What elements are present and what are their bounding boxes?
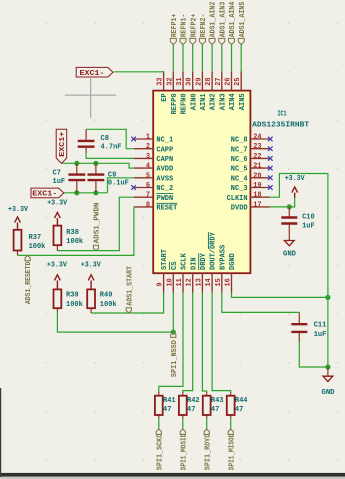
- svg-text:BYPASS: BYPASS: [219, 245, 227, 270]
- junction C7 top: [74, 161, 79, 166]
- svg-text:16: 16: [225, 278, 233, 286]
- net label SPI1_MOSID: [180, 429, 188, 470]
- svg-text:PWDN: PWDN: [156, 195, 173, 203]
- svg-text:REFN1-: REFN1-: [181, 14, 189, 38]
- svg-text:EXC1-: EXC1-: [80, 70, 105, 78]
- svg-text:22: 22: [253, 153, 261, 161]
- svg-text:SPI1_SCKD: SPI1_SCKD: [156, 434, 164, 471]
- svg-text:1uF: 1uF: [302, 223, 315, 231]
- svg-text:9: 9: [157, 282, 165, 286]
- svg-text:REFN0: REFN0: [181, 93, 189, 114]
- resistor R40: [87, 289, 116, 313]
- pin 5 AVSS: [134, 172, 173, 183]
- svg-text:1uF: 1uF: [53, 178, 66, 186]
- capacitor C7: [53, 163, 86, 193]
- power +3.3V R37: [8, 206, 29, 230]
- wire: [172, 45, 174, 72]
- svg-text:25: 25: [234, 78, 242, 86]
- wire: [240, 45, 242, 72]
- wire R39 to pin 10 CS net: [57, 312, 173, 333]
- capacitor C9: [88, 163, 129, 193]
- svg-text:SPI1_MOSID: SPI1_MOSID: [180, 434, 188, 471]
- svg-text:C7: C7: [53, 169, 61, 177]
- svg-text:100k: 100k: [29, 243, 46, 251]
- svg-text:SPI1_MISOD: SPI1_MISOD: [228, 434, 236, 471]
- svg-text:ADS1_AIN5: ADS1_AIN5: [239, 2, 247, 38]
- wire pin 8 RESET to R37: [18, 207, 134, 256]
- svg-text:0.1uF: 0.1uF: [108, 180, 129, 188]
- pin 20 NC_4: [231, 172, 273, 183]
- wire: [211, 45, 213, 72]
- ground rail: [322, 376, 335, 397]
- svg-text:DRDY: DRDY: [200, 252, 208, 270]
- svg-text:NC_1: NC_1: [156, 137, 173, 145]
- pin 12 DIN: [186, 257, 199, 292]
- svg-text:EXC1+: EXC1+: [59, 132, 67, 157]
- svg-text:12: 12: [186, 278, 194, 286]
- svg-text:30: 30: [186, 78, 194, 86]
- wire pin 10 CS down to junction: [172, 293, 174, 333]
- svg-text:AIN2: AIN2: [210, 93, 218, 110]
- wire: [230, 419, 232, 429]
- svg-text:CLKIN: CLKIN: [227, 195, 248, 203]
- pin 14 DOUT/DRDY: [205, 231, 218, 292]
- power +3.3V R39: [47, 261, 68, 289]
- svg-text:CAPP: CAPP: [156, 146, 173, 154]
- svg-text:C10: C10: [302, 213, 315, 221]
- wire: [158, 419, 160, 429]
- svg-text:11: 11: [176, 278, 184, 286]
- pin 21 NC_5: [231, 163, 273, 174]
- wire C8 bottom to pin 3 CAPN: [86, 153, 134, 158]
- net label REFN2-: [199, 14, 208, 45]
- capacitor C11: [291, 312, 326, 341]
- svg-text:47: 47: [187, 406, 195, 414]
- junction C9 bottom: [93, 190, 98, 195]
- svg-text:EXC1-: EXC1-: [32, 191, 57, 199]
- power +3.3V DVDD: [285, 175, 306, 198]
- pin 27 AIN3: [215, 71, 228, 110]
- svg-text:1uF: 1uF: [314, 331, 327, 339]
- net label REFP1+: [170, 14, 179, 45]
- capacitor C10: [281, 207, 314, 241]
- wire EXC1- to pin 33 EP: [114, 71, 164, 73]
- power +3.3V R38: [47, 200, 68, 226]
- svg-text:CS: CS: [171, 262, 179, 270]
- pin 7 PWDN: [134, 192, 173, 203]
- svg-text:C11: C11: [314, 321, 327, 329]
- svg-text:10: 10: [166, 278, 174, 286]
- svg-text:14: 14: [205, 278, 213, 286]
- svg-text:CAPN: CAPN: [156, 156, 173, 164]
- net label SPI1_RDYD: [204, 429, 212, 470]
- ground lead: [327, 367, 329, 376]
- pin 33 EP: [157, 71, 170, 101]
- global label EXC1+: [56, 129, 67, 163]
- resistor R43: [203, 392, 224, 419]
- pin 22 NC_6: [231, 153, 273, 164]
- wire pin 12 DIN to R42: [183, 293, 193, 393]
- pin 19 NC_3: [231, 182, 273, 193]
- svg-text:33: 33: [157, 78, 165, 86]
- svg-text:R38: R38: [66, 229, 79, 237]
- svg-text:NC_8: NC_8: [231, 137, 248, 145]
- svg-text:IC1: IC1: [278, 110, 287, 118]
- svg-text:4: 4: [146, 163, 150, 171]
- wire EXC1- / C7 C9 bottoms: [64, 192, 108, 194]
- junction DGND rail: [325, 295, 330, 300]
- svg-text:NC_5: NC_5: [231, 166, 248, 174]
- wire: [182, 419, 184, 429]
- IC U1 ADS1235IRHBT body: [153, 91, 250, 274]
- resistor R44: [227, 392, 248, 419]
- svg-text:7: 7: [146, 192, 150, 200]
- svg-text:NC_3: NC_3: [231, 185, 248, 193]
- svg-text:5: 5: [146, 172, 150, 180]
- svg-text:19: 19: [253, 182, 261, 190]
- svg-text:100k: 100k: [66, 238, 83, 246]
- ground C10: [283, 241, 296, 259]
- svg-text:START: START: [161, 249, 169, 270]
- pin 1 NC_1: [131, 134, 173, 145]
- svg-text:8: 8: [146, 201, 150, 209]
- svg-text:100k: 100k: [100, 301, 117, 309]
- resistor R39: [54, 289, 83, 311]
- svg-text:+3.3V: +3.3V: [285, 175, 306, 183]
- svg-text:ADS1235IRHBT: ADS1235IRHBT: [252, 121, 309, 129]
- svg-text:+3.3V: +3.3V: [8, 206, 29, 214]
- svg-text:GND: GND: [322, 389, 335, 397]
- net label ADS1_AIN3: [219, 2, 228, 45]
- svg-text:AVSS: AVSS: [156, 175, 173, 183]
- svg-text:EP: EP: [161, 93, 169, 101]
- svg-text:6: 6: [146, 182, 150, 190]
- svg-text:DOUT/DRDY: DOUT/DRDY: [210, 231, 218, 270]
- svg-text:47: 47: [211, 406, 219, 414]
- svg-text:NC_2: NC_2: [156, 185, 173, 193]
- svg-text:C8: C8: [101, 135, 109, 143]
- svg-text:3: 3: [146, 153, 150, 161]
- wire pin 15 BYPASS to C11: [222, 293, 299, 313]
- wire C8 top to pin 2 CAPP: [86, 129, 134, 148]
- pin 25 AIN5: [234, 71, 247, 110]
- svg-text:2: 2: [146, 143, 150, 151]
- svg-text:GND: GND: [283, 251, 296, 259]
- svg-text:AIN4: AIN4: [229, 93, 237, 110]
- svg-text:NC_4: NC_4: [231, 175, 248, 183]
- pin 4 AVDD: [134, 163, 173, 174]
- svg-text:DVDD: DVDD: [231, 205, 248, 213]
- svg-text:R44: R44: [235, 397, 248, 405]
- svg-text:REFP1+: REFP1+: [171, 14, 179, 38]
- svg-text:+3.3V: +3.3V: [47, 261, 68, 269]
- net label ADS1_START: [126, 266, 134, 313]
- wire pin 7 PWDN to R38: [57, 197, 133, 250]
- pin 32 REFP0: [166, 71, 179, 114]
- svg-text:ADS1_RESETD: ADS1_RESETD: [25, 262, 33, 305]
- wire pin 16 DGND to ground rail: [232, 293, 328, 298]
- wire: [206, 419, 208, 429]
- svg-text:ADS1_AIN4: ADS1_AIN4: [229, 2, 237, 38]
- wire: [201, 45, 203, 72]
- svg-text:+3.3V: +3.3V: [47, 200, 68, 208]
- svg-text:ADS1_AIN2: ADS1_AIN2: [210, 2, 218, 38]
- pin 28 AIN2: [205, 71, 218, 110]
- wire C11 bottom to ground rail: [299, 341, 328, 367]
- svg-text:47: 47: [163, 406, 171, 414]
- svg-text:+3.3V: +3.3V: [81, 261, 102, 269]
- pin 26 AIN4: [225, 71, 238, 110]
- pin 30 AIN0: [186, 71, 199, 110]
- svg-text:24: 24: [253, 134, 261, 142]
- svg-text:29: 29: [195, 78, 203, 86]
- pin 2 CAPP: [134, 143, 173, 154]
- svg-text:REFN2-: REFN2-: [200, 14, 208, 38]
- svg-text:C9: C9: [108, 172, 116, 180]
- svg-text:REFP2+: REFP2+: [190, 14, 198, 38]
- pin 13 DRDY: [195, 252, 208, 292]
- svg-text:R39: R39: [66, 292, 79, 300]
- svg-text:32: 32: [166, 78, 174, 86]
- wire pin 5 AVSS down to EXC1- net: [108, 178, 134, 193]
- wire pin 17 DVDD to +3.3V and C10: [270, 198, 295, 207]
- svg-text:NC_7: NC_7: [231, 146, 248, 154]
- pin 16 DGND: [225, 253, 238, 292]
- capacitor C8: [78, 129, 122, 153]
- svg-text:R37: R37: [29, 234, 42, 242]
- svg-text:20: 20: [253, 172, 261, 180]
- net label ADS1_PWDN: [93, 202, 101, 250]
- svg-text:13: 13: [195, 278, 203, 286]
- svg-text:R41: R41: [163, 397, 176, 405]
- svg-text:DGND: DGND: [229, 253, 237, 270]
- wire pin 13 DRDY to R43: [202, 293, 206, 393]
- svg-text:AIN3: AIN3: [219, 93, 227, 110]
- wire: [231, 45, 233, 72]
- svg-text:21: 21: [253, 163, 261, 171]
- wire: [192, 45, 194, 72]
- svg-text:AIN0: AIN0: [190, 93, 198, 110]
- svg-text:SPI1_RDYD: SPI1_RDYD: [204, 434, 212, 471]
- pin 6 NC_2: [131, 182, 173, 193]
- resistor R38: [54, 226, 84, 251]
- svg-text:ADS1_START: ADS1_START: [126, 266, 134, 306]
- junction CS / R39: [171, 330, 176, 335]
- svg-text:DIN: DIN: [190, 257, 198, 270]
- net label SPI1_SCKD: [156, 429, 164, 470]
- svg-text:NC_6: NC_6: [231, 156, 248, 164]
- net label REFN1-: [180, 14, 189, 45]
- wire pin 11 SCLK to R41: [159, 293, 183, 393]
- pin 29 AIN1: [195, 71, 208, 110]
- wire: [221, 45, 223, 72]
- wire pin 14 DOUT/DRDY to R44: [212, 293, 231, 393]
- svg-text:26: 26: [225, 78, 233, 86]
- wire: [182, 45, 184, 72]
- svg-text:R42: R42: [187, 397, 200, 405]
- resistor R42: [179, 392, 200, 419]
- svg-text:ADS1_PWDN: ADS1_PWDN: [94, 202, 102, 243]
- pin 8 RESET: [134, 201, 178, 212]
- net label ADS1_AIN5: [238, 2, 247, 45]
- pin 9 START: [157, 249, 170, 293]
- svg-text:ADS1_AIN3: ADS1_AIN3: [219, 2, 227, 38]
- pin 24 NC_8: [231, 134, 273, 145]
- svg-text:AVDD: AVDD: [156, 166, 173, 174]
- svg-text:18: 18: [253, 192, 261, 200]
- pin 10 CS: [166, 262, 179, 293]
- pin 31 REFN0: [176, 71, 189, 114]
- resistor R41: [155, 392, 176, 419]
- svg-text:R40: R40: [100, 292, 113, 300]
- net label SPI1_MISOD: [228, 429, 236, 470]
- junction C9 top: [93, 161, 98, 166]
- crosshair marker: [65, 78, 116, 118]
- net label ADS1_AIN2: [209, 2, 218, 45]
- wire pin 18 CLKIN to ground rail: [270, 174, 328, 368]
- net label SPI1_NSSD: [171, 332, 179, 377]
- svg-text:23: 23: [253, 143, 261, 151]
- wire pin 9 START to R40 / ADS1_START: [91, 293, 164, 314]
- svg-text:AIN5: AIN5: [239, 93, 247, 110]
- global label EXC1- mid: [31, 188, 64, 198]
- svg-text:AIN1: AIN1: [200, 93, 208, 110]
- pin 17 DVDD: [231, 201, 270, 212]
- pin 11 SCLK: [176, 252, 189, 292]
- net label ADS1_AIN4: [229, 2, 238, 45]
- svg-text:R43: R43: [211, 397, 224, 405]
- svg-text:47: 47: [235, 406, 243, 414]
- wire EXC1+ / C7 C9 tops to pin 4 AVDD: [62, 163, 134, 168]
- svg-text:RESET: RESET: [156, 205, 177, 213]
- svg-text:28: 28: [205, 78, 213, 86]
- junction C7 bottom: [74, 190, 79, 195]
- net label REFP2+: [190, 14, 199, 45]
- pin 3 CAPN: [134, 153, 173, 164]
- power +3.3V R40: [81, 261, 102, 289]
- svg-text:4.7nF: 4.7nF: [101, 144, 122, 152]
- svg-text:1: 1: [146, 134, 150, 142]
- global label EXC1- top: [76, 67, 113, 77]
- svg-text:SCLK: SCLK: [181, 252, 189, 270]
- svg-text:31: 31: [176, 78, 184, 86]
- junction DVDD / C10: [287, 204, 292, 209]
- svg-text:27: 27: [215, 78, 223, 86]
- resistor R37: [14, 230, 46, 256]
- svg-text:17: 17: [253, 201, 261, 209]
- svg-text:15: 15: [215, 278, 223, 286]
- svg-text:100k: 100k: [66, 301, 83, 309]
- pin 23 NC_7: [231, 143, 273, 154]
- pin 18 CLKIN: [227, 192, 270, 203]
- pin 15 BYPASS: [215, 245, 228, 293]
- svg-text:REFP0: REFP0: [171, 93, 179, 114]
- net label ADS1_RESETD: [25, 255, 33, 304]
- svg-text:SPI1_NSSD: SPI1_NSSD: [171, 340, 179, 377]
- junction ground rail / C11: [325, 364, 330, 369]
